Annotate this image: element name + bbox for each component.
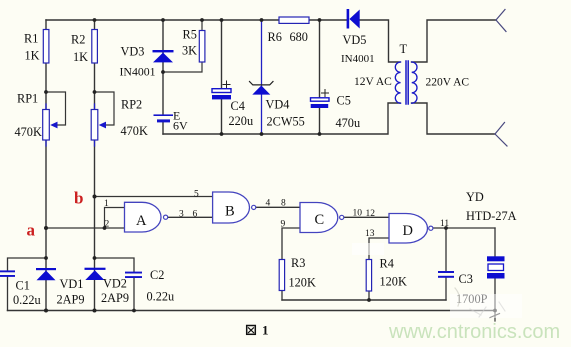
svg-text:VD5: VD5: [343, 33, 367, 47]
capacitor C3: [438, 271, 454, 273]
resistor R3: [279, 260, 284, 291]
svg-text:2CW55: 2CW55: [267, 115, 305, 129]
svg-text:A: A: [136, 213, 147, 229]
svg-text:www.cntronics.com: www.cntronics.com: [388, 321, 560, 343]
zener diode VD4: [250, 82, 274, 85]
output terminal top: [496, 10, 506, 32]
wire RP2 wiper link: [95, 92, 115, 125]
resistor R1: [43, 30, 49, 64]
svg-text:HTD-27A: HTD-27A: [466, 209, 517, 223]
svg-text:2: 2: [105, 220, 110, 230]
pin numbers: [104, 190, 449, 240]
svg-text:120K: 120K: [289, 276, 316, 290]
wire bus y300 R3-R4-C3: [282, 299, 446, 301]
resistor R6: [279, 17, 309, 23]
wire gate A input tie pin1: [105, 208, 125, 229]
svg-text:B: B: [225, 204, 235, 220]
svg-text:680: 680: [290, 30, 308, 44]
diode VD3: [153, 50, 174, 52]
wire gate C output to D pin12: [344, 216, 389, 218]
capacitor C4: [223, 81, 230, 88]
svg-text:IN4001: IN4001: [341, 53, 375, 65]
potentiometer RP2 wiper arrow: [99, 122, 106, 129]
svg-text:1: 1: [104, 199, 109, 209]
nand gate D: [389, 214, 428, 244]
svg-text:12V AC: 12V AC: [354, 76, 392, 88]
wire gate B output to C pin8: [256, 206, 300, 208]
svg-text:R6: R6: [268, 30, 282, 44]
wire node b to gate B pin5: [95, 196, 213, 198]
faint watermark blotches: [352, 243, 522, 318]
svg-text:C2: C2: [150, 268, 164, 282]
resistor R2: [92, 30, 98, 64]
svg-text:R2: R2: [71, 33, 85, 47]
wire R4 to D pin13: [369, 238, 389, 260]
wire RP1 wiper link: [46, 92, 66, 125]
wire C3 branch: [445, 228, 447, 300]
svg-text:0.22u: 0.22u: [147, 290, 175, 304]
output terminal bottom: [495, 123, 507, 147]
svg-text:220u: 220u: [229, 114, 254, 128]
svg-text:6V: 6V: [173, 119, 188, 133]
svg-text:a: a: [27, 221, 36, 240]
svg-text:R5: R5: [183, 28, 197, 42]
svg-text:VD3: VD3: [121, 45, 145, 59]
nand gate C: [300, 203, 338, 233]
wire R3 bottom: [281, 291, 283, 301]
svg-text:9: 9: [281, 220, 286, 230]
svg-text:D: D: [403, 223, 413, 239]
diode VD1: [36, 268, 56, 270]
wire C1 branch: [8, 258, 47, 311]
wire top bus left of VD5: [46, 19, 347, 21]
ground stub at YD: [490, 311, 500, 322]
transformer T primary winding: [395, 62, 400, 103]
svg-text:IN4001: IN4001: [120, 65, 156, 79]
wire VD4 branch (blue): [261, 20, 263, 134]
svg-text:3K: 3K: [182, 44, 197, 58]
wire R5 branch: [163, 20, 202, 72]
svg-text:13: 13: [365, 229, 375, 239]
resistor R4: [366, 260, 371, 292]
svg-text:RP1: RP1: [17, 92, 38, 106]
piezo sounder YD: [487, 256, 505, 261]
wire YD branch: [494, 228, 496, 311]
gate letters: [136, 204, 413, 240]
capacitor C5: [322, 90, 329, 97]
wire mid bus y134: [163, 103, 400, 134]
wire C2 branch: [95, 258, 135, 311]
svg-text:470K: 470K: [15, 125, 42, 139]
svg-text:11: 11: [440, 219, 449, 229]
svg-text:120K: 120K: [380, 275, 407, 289]
transformer T core: [406, 61, 408, 104]
svg-text:1K: 1K: [25, 49, 40, 63]
diode VD5: [347, 9, 350, 29]
svg-text:12: 12: [366, 209, 376, 219]
svg-text:220V AC: 220V AC: [426, 77, 470, 89]
diode VD2: [85, 268, 106, 270]
svg-text:C: C: [315, 212, 325, 228]
svg-text:b: b: [74, 189, 83, 208]
svg-text:VD2: VD2: [103, 277, 127, 291]
wire C4 branch: [221, 20, 223, 134]
transformer T secondary winding: [412, 62, 417, 103]
capacitor C1: [0, 270, 15, 272]
potentiometer RP1 body: [45, 104, 47, 146]
potentiometer RP1 wiper arrow: [50, 122, 57, 129]
svg-text:2AP9: 2AP9: [101, 291, 129, 305]
wire gate D output: [433, 227, 495, 229]
wire top bus right of VD5: [360, 20, 401, 62]
svg-text:R1: R1: [24, 32, 38, 46]
battery E: [154, 114, 174, 116]
svg-text:C4: C4: [231, 99, 245, 113]
wire transformer secondary bottom: [412, 103, 496, 134]
svg-text:3: 3: [179, 210, 184, 220]
wire node a to gate A pin2: [46, 227, 125, 229]
svg-text:C3: C3: [459, 272, 473, 286]
nand gate B: [213, 192, 250, 223]
wire R2 branch vertical: [94, 20, 96, 311]
svg-text:C1: C1: [16, 279, 30, 293]
svg-text:YD: YD: [466, 190, 484, 204]
nand gate A: [125, 202, 162, 232]
svg-text:0.22u: 0.22u: [13, 293, 41, 307]
svg-text:R4: R4: [380, 257, 394, 271]
potentiometer RP2 body: [94, 104, 96, 146]
wire R3 to C pin9: [282, 228, 300, 260]
capacitor C2: [125, 272, 142, 274]
svg-text:VD1: VD1: [60, 277, 84, 291]
wire R4 bottom: [368, 291, 370, 300]
wire R1 branch vertical: [45, 20, 47, 311]
svg-text:VD4: VD4: [266, 98, 290, 112]
svg-text:R3: R3: [291, 256, 305, 270]
svg-text:470u: 470u: [336, 116, 361, 130]
wire transformer secondary top: [412, 20, 497, 62]
wire VD3 battery branch: [162, 20, 164, 134]
svg-text:1: 1: [262, 323, 269, 338]
svg-text:6: 6: [193, 210, 198, 220]
wire C5 branch: [319, 20, 321, 134]
svg-text:2AP9: 2AP9: [57, 293, 85, 307]
svg-text:RP2: RP2: [121, 98, 142, 112]
svg-text:1K: 1K: [73, 50, 88, 64]
wire bottom bus y310: [8, 310, 496, 312]
svg-text:5: 5: [194, 190, 199, 200]
wire gate A output to B pin6: [168, 216, 213, 218]
svg-text:4: 4: [266, 199, 271, 209]
svg-text:C5: C5: [337, 94, 351, 108]
figure caption 图 1: [247, 326, 256, 335]
svg-text:T: T: [400, 42, 408, 56]
svg-text:8: 8: [281, 199, 286, 209]
svg-text:10: 10: [353, 209, 363, 219]
resistor R5: [199, 31, 205, 63]
svg-text:470K: 470K: [121, 124, 148, 138]
